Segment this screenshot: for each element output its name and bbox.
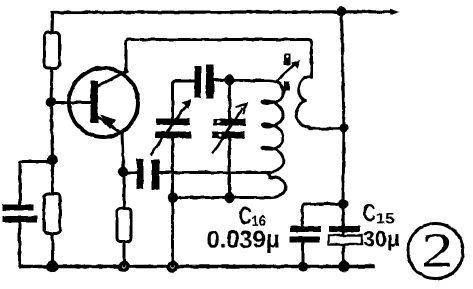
transistor collector stroke: [96, 71, 127, 87]
capacitor C16 bottom plate: [290, 237, 321, 243]
node: ground junction under trimmer line: [167, 261, 179, 273]
bypass capacitor top plate: [3, 205, 34, 211]
wire: right vertical supply line: [342, 12, 345, 267]
transistor Q1 (PNP) circle: [69, 68, 138, 137]
transistor emitter stroke: [96, 116, 122, 134]
node: ground junction under R3: [118, 261, 130, 273]
wire: trimmer2 line from tank top node down: [228, 80, 231, 119]
capacitor C15 top plate: [329, 226, 360, 232]
label C15: [364, 204, 376, 221]
capacitor C16 top plate: [291, 226, 322, 232]
figure number 2: [424, 234, 450, 267]
arrowhead on supply lead: [390, 9, 400, 16]
wire: emitter node to R3: [123, 172, 126, 209]
resistor R3 (emitter): [117, 209, 131, 242]
node: ground junction left: [47, 261, 59, 273]
inductor L2 (feedback winding, 2 loops): [296, 74, 339, 129]
node: ground junction under C16: [298, 262, 308, 272]
wire: bypass capacitor to ground rail: [20, 223, 23, 267]
node: L2 to supply line junction: [339, 123, 348, 132]
wire: supply output lead with arrow: [341, 10, 392, 13]
trimmer capacitor C(t1) bottom plate: [155, 132, 191, 139]
wire: C16 to ground rail: [302, 243, 305, 267]
ferrite core dash 2: [284, 81, 290, 91]
capacitor C15 bottom plate (electrolytic, hollow): [329, 236, 362, 245]
trimmer capacitor C(t2) top plate: [214, 119, 247, 126]
wire: emitter down to emitter node: [122, 133, 124, 172]
wire: trimmer1 top corner to series cap: [173, 81, 196, 119]
node: tank top junction: [224, 75, 234, 85]
figure number circle: [408, 224, 463, 279]
wire: series cap right plate to tank top node: [214, 79, 229, 82]
coupling capacitor right plate: [152, 160, 160, 190]
trimmer capacitor C(t2) bottom plate: [212, 132, 245, 139]
node: base junction: [46, 97, 56, 107]
wire: junction to R2 top: [51, 160, 54, 195]
trimmer capacitor C(t1) top plate: [156, 119, 190, 126]
node: tank bottom junction right: [224, 192, 234, 202]
node: tank bottom junction left: [168, 192, 178, 202]
core adjust arrow: [278, 64, 296, 80]
wire: top supply rail from R1 top-left corner to right junction: [52, 12, 341, 33]
trimmer1 arrow: [151, 106, 186, 154]
node: lower-left junction: [47, 154, 57, 164]
wire: coupling cap to coil tap (crosses trimmer lines): [160, 171, 265, 174]
wire: trimmer2 line down to tank bottom wire: [228, 139, 231, 198]
wire: tank bottom wire to coil bottom end: [173, 196, 268, 199]
node: ground junction under C15: [338, 261, 350, 273]
series capacitor right plate: [206, 65, 214, 99]
inductor L1 (tank coil, 5 loops with tap): [234, 80, 284, 172]
label C16: [240, 207, 252, 224]
transistor base bar: [91, 81, 99, 123]
wire: R1 bottom to base node: [51, 68, 52, 103]
node: decoupling node junction: [338, 199, 348, 209]
resistor R1 (base bias, top left): [45, 33, 60, 69]
inductor L1 bottom loop: [264, 173, 286, 198]
series capacitor (top, between trimmer lines) left plate: [195, 66, 202, 98]
wire: trimmer1 line down to tank bottom node: [171, 138, 174, 266]
node: emitter junction: [118, 167, 128, 177]
transistor emitter arrowhead (points to base = PNP): [100, 115, 116, 130]
trimmer2 arrow: [213, 109, 242, 153]
wire: R3 bottom to ground: [123, 242, 126, 267]
wire: R2 bottom to ground: [51, 234, 54, 267]
wire: base node down to lower-left junction: [51, 102, 53, 160]
ferrite core dash 1: [284, 54, 291, 66]
node: top rail junction: [337, 7, 347, 17]
coupling capacitor left plate: [137, 159, 144, 189]
label 30u: [364, 231, 399, 251]
label 0.039u: [208, 231, 279, 253]
wire: lower-left junction to bypass capacitor: [20, 162, 53, 206]
bypass capacitor bottom plate: [3, 216, 38, 223]
wire: emitter node to coupling cap: [124, 171, 137, 174]
wire: ground rail: [21, 265, 373, 269]
wire: collector up and across to L2: [126, 40, 312, 78]
wire: base lead into transistor: [51, 101, 92, 104]
resistor R2 (base lower bias): [44, 194, 60, 234]
wire: decoupling node left and down to C16: [303, 204, 344, 226]
